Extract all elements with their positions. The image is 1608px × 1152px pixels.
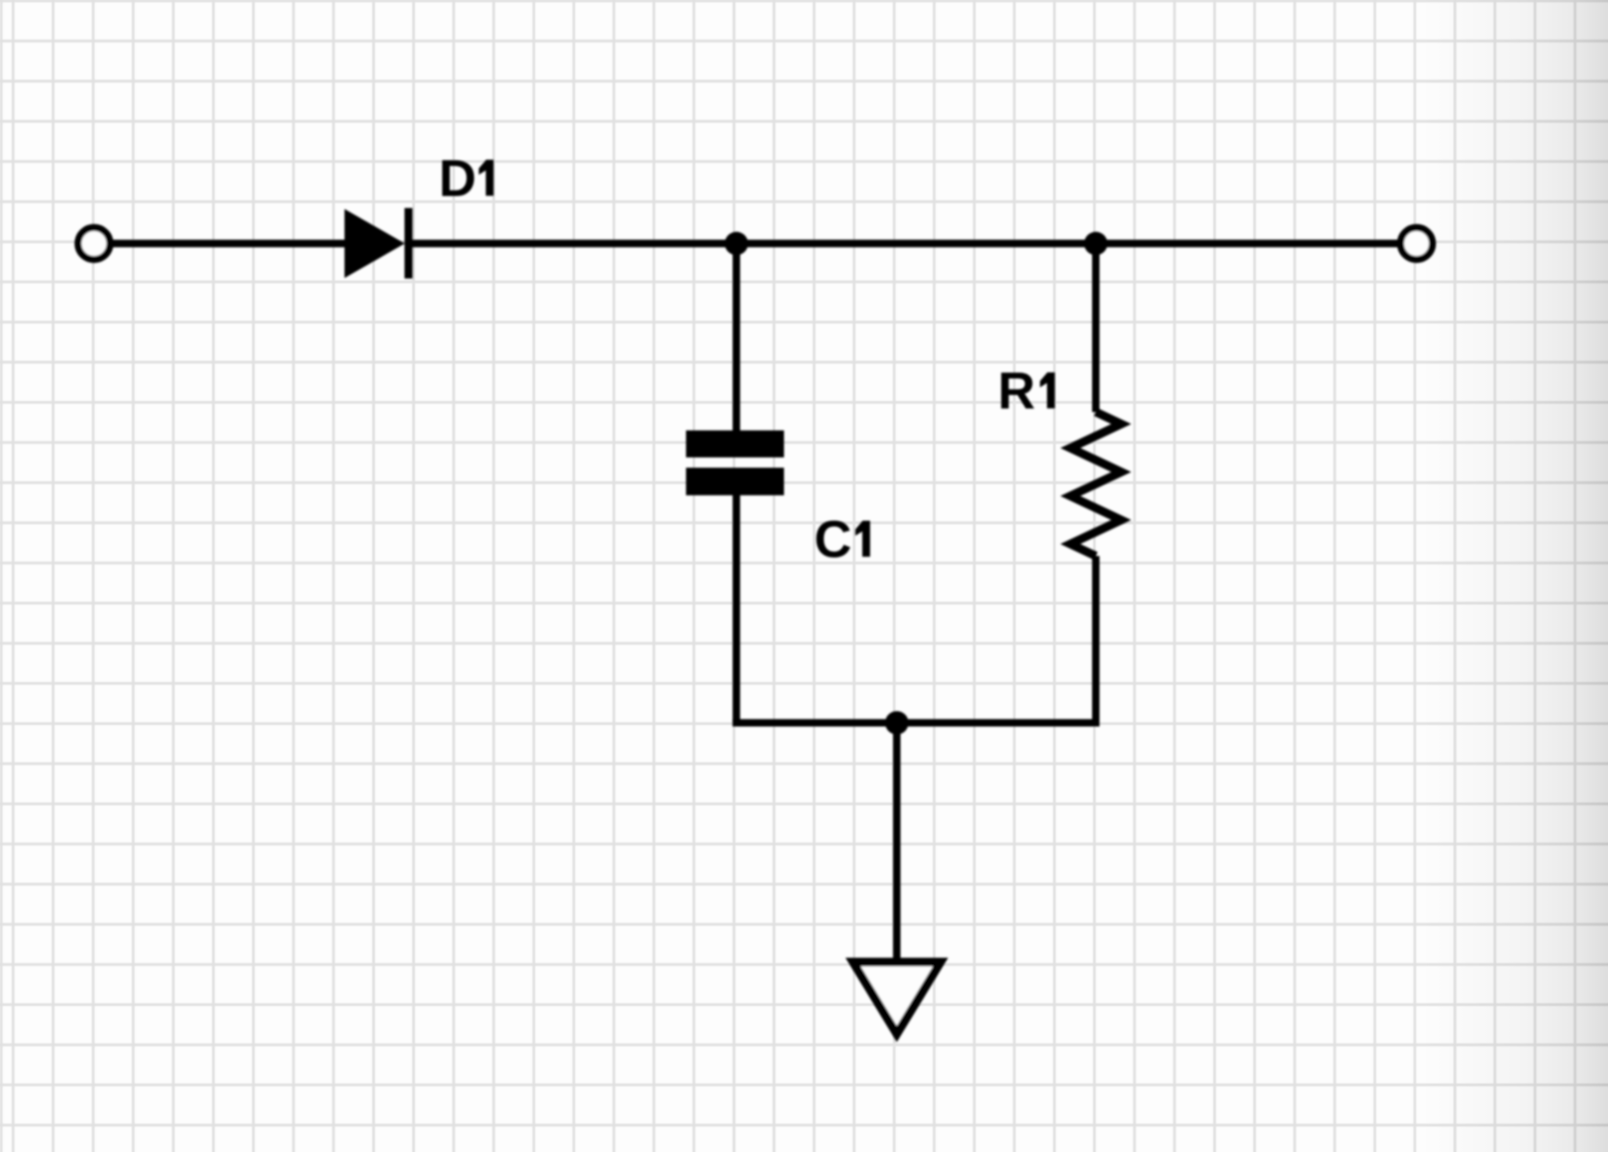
wire: node B to output terminal (1096, 240, 1398, 247)
capacitor C1 bottom plate (686, 468, 784, 496)
output terminal (open circle) (1401, 228, 1433, 260)
wire: resistor R1 down to bottom rail (1092, 556, 1099, 727)
wire: node A to node B (736, 240, 1095, 247)
input terminal (open circle) (78, 228, 110, 260)
wire: capacitor C1 bottom plate down to bottom rail (733, 493, 740, 726)
node A junction dot (725, 232, 748, 255)
right edge shading (1420, 0, 1608, 1152)
wire: diode cathode to node A (409, 240, 737, 247)
bottom rail wire (C1 to R1) (733, 719, 1100, 726)
svg-text:D: D (439, 150, 477, 208)
diode D1 cathode bar (405, 208, 413, 279)
diode D1 triangle (anode) (345, 209, 405, 278)
bottom rail junction dot (885, 711, 908, 734)
resistor R1 zigzag body (1070, 412, 1121, 556)
capacitor C1 top plate (686, 430, 784, 457)
svg-text:R: R (998, 362, 1036, 420)
ground symbol (open triangle) (853, 962, 941, 1034)
wire: bottom junction down to ground (893, 723, 900, 962)
wire: node A down to capacitor C1 top plate (733, 244, 740, 433)
svg-text:C: C (814, 511, 852, 569)
wire: input terminal to diode anode (113, 240, 347, 247)
wire: node B down to resistor R1 (1092, 244, 1099, 413)
node B junction dot (1084, 232, 1107, 255)
